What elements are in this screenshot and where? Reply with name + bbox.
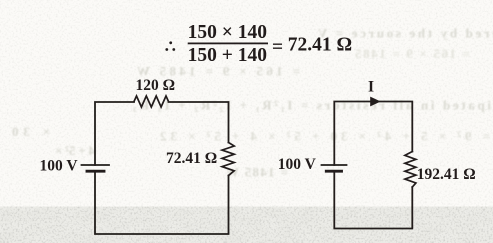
svg-text:72.41 Ω: 72.41 Ω [288,34,352,55]
svg-text:150 + 140: 150 + 140 [188,45,267,66]
svg-text:= 165 × 9 = 1485: = 165 × 9 = 1485 [355,46,471,61]
svg-text:150 × 140: 150 × 140 [188,22,267,43]
svg-text:I: I [368,79,374,96]
svg-text:192.41 Ω: 192.41 Ω [417,166,476,183]
svg-text:120 Ω: 120 Ω [136,77,176,94]
svg-text:ipated in all resistors = I₁²R: ipated in all resistors = I₁²R₁ + I₂²R₂ … [133,98,491,113]
svg-text:= 9² × 5 + 4² × 30 + 5² × 4 +: = 9² × 5 + 4² × 30 + 5² × 4 + 5² × 32 [160,129,490,144]
svg-text:4 + 5² ×: 4 + 5² × [55,143,95,158]
svg-text:=: = [272,37,283,58]
svg-text:72.41 Ω: 72.41 Ω [166,150,217,167]
svg-text:100 V: 100 V [278,156,317,173]
svg-text:100 V: 100 V [39,157,78,174]
